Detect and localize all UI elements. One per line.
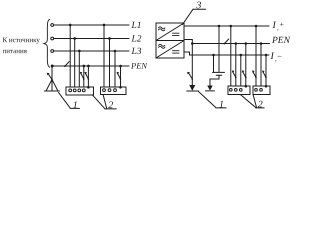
switch blade dc B t1: [253, 71, 256, 77]
svg-text:+: +: [280, 20, 285, 29]
wire PE drop from PEN to board 1: [87, 66, 89, 87]
node junction I+ x256: [255, 25, 258, 28]
battery branch: wire from I+: [218, 26, 220, 72]
svg-text:питания: питания: [3, 47, 28, 55]
wire L2 drop to board 1: [74, 38, 76, 87]
wire L1 drop to board 2: [103, 25, 105, 87]
wire N drop from PEN to board 1: [83, 66, 85, 87]
wire PEN drop 2 to dc box A: [245, 44, 247, 87]
wire L2: [52, 37, 129, 39]
svg-text:L2: L2: [131, 34, 142, 44]
svg-text:К источнику: К источнику: [3, 36, 41, 44]
distribution board 2 (right AC box): [100, 87, 126, 95]
terminal circles board 2: [103, 89, 106, 92]
wire PEN ground drop: [51, 66, 53, 91]
wire PEN dc line: [192, 43, 269, 45]
blade pivot dot dc box A t2: [235, 77, 237, 79]
svg-text:2: 2: [258, 99, 263, 110]
wire I+ drop to dc box B: [255, 26, 257, 86]
switch blade on ground drop: [48, 73, 52, 79]
svg-text:–: –: [276, 51, 282, 60]
svg-text:3: 3: [195, 0, 201, 11]
wire I- to battery plate: [212, 55, 214, 72]
wire L3: [52, 50, 129, 52]
svg-text:L1: L1: [131, 21, 142, 31]
terminal circles dc box B: [255, 89, 258, 92]
dc receiver box B: [253, 86, 270, 95]
earth electrode right (triangle and bar): [189, 85, 195, 91]
wire L1: [52, 24, 129, 26]
node PEN terminal: [51, 64, 54, 67]
wire L3 drop to board 1: [78, 51, 80, 87]
node junction I- x241: [240, 54, 243, 57]
wire PEN: [52, 65, 129, 67]
wire PEN drop to dc box A: [235, 44, 237, 86]
blade pivot dot dc box B t1: [255, 77, 257, 79]
svg-text:PEN: PEN: [130, 60, 148, 70]
blade pivot dot dc box B t3: [265, 77, 267, 79]
node junction PEN x84: [82, 65, 85, 68]
blade pivot dot board2 PEN: [120, 78, 122, 80]
node junction I+ battery: [218, 25, 221, 28]
brace { to source: [44, 19, 50, 67]
node L1 terminal: [51, 24, 54, 27]
svg-text:PEN: PEN: [271, 36, 291, 46]
distribution board 1 (left AC box): [66, 87, 94, 95]
wire L1 drop to board 1: [69, 25, 71, 87]
node junction I- x266: [265, 54, 268, 57]
node junction PEN dc ground: [191, 42, 194, 45]
terminal circles dc box A: [229, 89, 232, 92]
svg-text:I: I: [272, 20, 277, 31]
wire I- drop to dc box B: [265, 55, 267, 86]
node junction board 1 top edge: [87, 86, 90, 89]
blade pivot dot board1 N: [83, 78, 85, 80]
leader line label 3: [183, 9, 194, 24]
node junction PEN x236: [235, 42, 238, 45]
wire PEN dc stub: [184, 40, 192, 44]
node junction I- battery: [212, 54, 215, 57]
switch blade on PEN dc: [224, 39, 228, 44]
node junction board 2 top edge: [119, 86, 122, 89]
blade pivot dot board1 PE: [88, 78, 90, 80]
converter U3 (AC/DC): [156, 23, 184, 58]
leader lines label 2 right: [241, 95, 256, 108]
node junction box A top: [244, 85, 247, 88]
leader line label 1 right: [198, 92, 215, 108]
node junction L1 x70: [69, 24, 72, 27]
wire I- line: [190, 54, 270, 56]
blade pivot dot right ground: [191, 78, 193, 80]
wire I+ line: [184, 25, 269, 27]
node junction PEN x88: [87, 65, 90, 68]
switch blade dc B t3: [263, 71, 266, 77]
earth electrode left (triangle and bar): [46, 79, 52, 91]
blade pivot dot left ground: [51, 79, 53, 81]
switch blade on right ground drop: [188, 73, 192, 80]
battery GB short plate: [216, 74, 222, 76]
leader lines label 2 left: [92, 95, 105, 109]
earth electrode middle (triangle and bar): [207, 86, 213, 91]
wire battery to mid earth electrode: [210, 75, 219, 86]
svg-text:2: 2: [108, 100, 113, 111]
node junction I+ x231: [230, 25, 233, 28]
wire I+ drop to dc box A: [230, 26, 232, 86]
node junction L2 x109: [108, 37, 111, 40]
wire PEN drop to board 2: [119, 66, 121, 87]
node junction PEN x246: [245, 42, 248, 45]
switch blade on PEN line: [65, 62, 69, 67]
switch blade dc A t4: [243, 71, 246, 77]
terminal circles board 1: [69, 89, 72, 92]
wire L2 drop to board 2: [108, 38, 110, 87]
wire ground drop right: [191, 44, 193, 87]
dc receiver box A: [228, 86, 250, 95]
svg-text:I: I: [269, 51, 274, 62]
leader line label 1 left: [58, 92, 70, 108]
svg-text:1: 1: [219, 99, 224, 110]
node junction PEN x261: [260, 42, 263, 45]
switch blade on PEN drop board 2: [117, 73, 120, 79]
switch blade on PE drop: [85, 73, 88, 79]
blade pivot dot dc box A t4: [245, 77, 247, 79]
node junction L3 x79: [78, 50, 81, 53]
node junction L2 x75: [73, 37, 76, 40]
node L3 terminal: [51, 50, 54, 53]
wire I- stub: [184, 52, 190, 55]
node junction L1 x104: [103, 24, 106, 27]
node junction PEN x120: [119, 65, 122, 68]
wire I- drop to dc box A: [240, 55, 242, 86]
node L2 terminal: [51, 37, 54, 40]
wire L3 drop to board 2: [114, 51, 116, 87]
wire PEN drop to dc box B: [260, 44, 262, 86]
svg-text:L3: L3: [131, 47, 142, 57]
battery GB long plate: [212, 71, 224, 73]
node junction box B top: [265, 85, 268, 88]
switch blade on N drop: [81, 73, 84, 79]
switch blade dc A t2: [233, 71, 236, 77]
svg-text:1: 1: [73, 100, 78, 111]
node junction L3 x115: [114, 50, 117, 53]
